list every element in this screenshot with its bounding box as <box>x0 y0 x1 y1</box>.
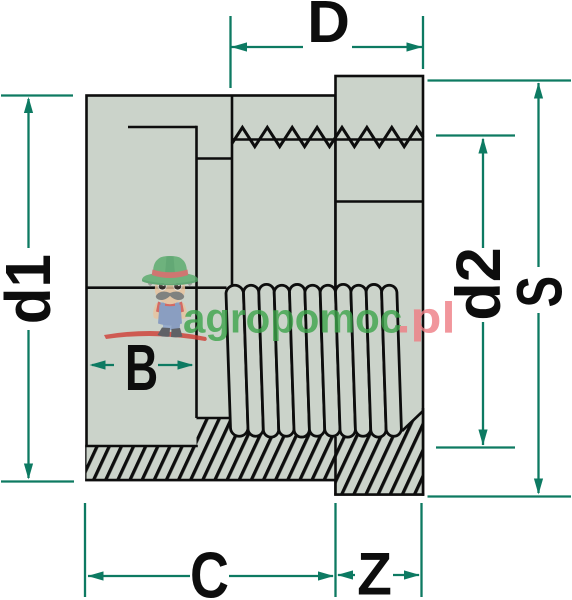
dim C line <box>88 575 190 577</box>
dim d2 bottom arrowhead <box>478 430 487 446</box>
dim C right arrowhead <box>318 571 334 580</box>
dim C extension lines <box>84 503 86 597</box>
dim d2 line <box>482 139 484 248</box>
cut wall border: thread end chamfer line <box>402 411 423 431</box>
dim d2 top arrowhead <box>478 138 487 154</box>
svg-text:agropomoc: agropomoc <box>183 295 402 342</box>
svg-text:B: B <box>125 331 158 404</box>
fitting body (left socket section) <box>87 96 336 481</box>
dim S tick lines <box>428 79 572 81</box>
wire: redraw right section right edge <box>422 408 425 496</box>
dim Z right arrowhead <box>404 570 420 579</box>
dim d2 tick lines <box>436 134 515 136</box>
dim B arrow lines <box>92 364 114 366</box>
svg-text:D: D <box>307 0 350 55</box>
socket bore top line <box>128 126 197 129</box>
cut wall border: band top line <box>85 445 198 448</box>
internal thread zigzag <box>232 127 423 146</box>
wire: redraw body bottom edges <box>85 479 335 482</box>
dim D extension lines <box>229 16 231 88</box>
svg-text:.pl: .pl <box>397 294 456 343</box>
dim B right arrowhead <box>178 360 194 369</box>
dim d1 top arrowhead <box>24 97 33 113</box>
dim D right arrowhead <box>407 42 423 51</box>
dim S line <box>537 83 539 267</box>
dim D left arrowhead <box>231 42 247 51</box>
internal thread turns (elevation loops) <box>226 284 401 437</box>
cut wall border: step top line <box>197 417 232 420</box>
dim Z line <box>338 574 355 576</box>
dim d1 tick lines <box>1 94 73 96</box>
internal thread crest line <box>232 138 423 141</box>
svg-text:C: C <box>190 539 229 600</box>
hatched cut wall (bottom) <box>87 411 424 495</box>
dim d1 bottom arrowhead <box>24 464 33 480</box>
right section inner line <box>336 200 424 203</box>
svg-text:d1: d1 <box>0 254 64 324</box>
watermark red swoosh <box>104 331 207 341</box>
svg-text:S: S <box>504 276 572 308</box>
dim B left arrowhead <box>90 360 106 369</box>
dim S bottom arrowhead <box>534 479 543 495</box>
bore shoulder vertical line <box>195 126 198 418</box>
wire: section split line in band <box>334 437 337 495</box>
dim Z left arrowhead <box>337 570 353 579</box>
svg-text:Z: Z <box>357 541 392 600</box>
watermark farmer mascot <box>142 256 198 337</box>
dim C left arrowhead <box>88 571 104 580</box>
dim d1 line <box>27 99 29 248</box>
dim S top arrowhead <box>534 83 543 99</box>
fitting body (right threaded section) <box>336 76 424 495</box>
dim D line <box>231 46 303 48</box>
counterbore step line <box>197 157 233 160</box>
socket mid bore line <box>87 286 227 289</box>
thread-start vertical line <box>231 96 234 296</box>
